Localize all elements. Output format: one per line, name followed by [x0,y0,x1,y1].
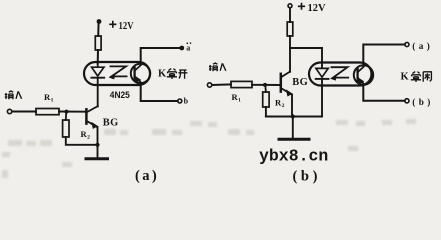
phototransistor collector diagonal (b) [358,67,364,73]
wire R2 to bottom rail (a) [66,137,98,145]
LED cathode wire down to rail (b) [321,80,323,116]
junction node base/R2 (a) [65,110,69,114]
svg-text:1: 1 [51,98,54,104]
junction node base/R2 (b) [263,83,267,87]
svg-text:12V: 12V [119,21,134,32]
emitter wire down to contact (b) terminal (b) [363,85,405,101]
svg-text:(b): (b) [412,97,433,107]
light-arrow Z symbol (a) [111,66,127,76]
bottom rail (b) [266,116,322,118]
svg-text:2: 2 [282,103,285,109]
input wire to R1 (a) [12,111,36,113]
wire R1 to base (a) [59,111,86,113]
input wire to R1 (b) [212,83,231,86]
svg-text:12V: 12V [308,3,326,14]
wire junction down to R2 (a) [65,112,67,120]
wire R2 to bottom rail (b) [265,107,267,117]
optocoupler 4N25 stadium outline (a) [84,62,150,85]
label +12V (a) [109,21,116,28]
svg-text:b: b [184,96,189,105]
junction node emitter/rail (a) [95,143,99,147]
LED anode wire inside (a) [97,64,99,68]
wire resistor to optocoupler (a) [97,50,99,64]
phototransistor emitter diagonal with arrow (a) [135,76,141,82]
labels circuit (a) [5,21,191,184]
phototransistor base bar (b) [356,69,358,81]
wire +12V to resistor (b) [289,8,291,22]
svg-text:a: a [186,44,190,53]
svg-text:K: K [401,71,410,82]
resistor R1 body (a) [36,109,59,115]
collector wire up to contact a (a) [141,48,180,65]
LED triangle (a) [92,67,104,76]
phototransistor base bar (a) [133,68,135,80]
emitter wire down to rail (b) [291,95,293,117]
svg-text:ybx8.cn: ybx8.cn [259,147,328,166]
terminal b open circle (a) [178,99,182,103]
emitter wire down to contact b (a) [141,83,178,101]
input terminal circle (b) [207,83,211,87]
ground stub (a) [97,145,99,158]
resistor R1 body (b) [231,81,252,87]
svg-text:BG: BG [292,77,308,88]
resistor (collector series) body (a) [95,36,101,50]
LED cathode bar (a) [91,77,104,79]
svg-text:4N25: 4N25 [110,90,131,101]
transistor BG emitter diagonal with arrow (a) [86,121,97,127]
svg-text:(a): (a) [135,168,159,184]
+12V supply terminal dot (a) [97,19,102,24]
resistor R2 body (a) [63,120,69,137]
svg-text:1: 1 [238,97,241,103]
resistor (pull-up) body (b) [287,22,293,36]
wire junction down to collector (b) [289,48,291,72]
emitter wire down (a) [97,127,99,145]
transistor BG emitter diagonal with arrow (b) [281,88,292,95]
phototransistor circle (b) [354,65,373,84]
ground bar (a) [86,157,108,160]
terminal (b) open circle (b) [405,99,409,103]
phototransistor collector diagonal (a) [135,65,141,71]
collector wire up to contact (a) terminal (b) [363,45,405,67]
optocoupler stadium outline (b) [309,63,372,86]
transistor BG base bar (a) [85,109,88,123]
faint bleed-through smudges [2,119,416,178]
label +12V (b) [298,3,305,10]
phototransistor circle (a) [131,64,150,83]
light-arrow Z symbol (b) [332,67,349,77]
svg-text:K: K [158,69,167,80]
input terminal circle (a) [7,109,11,113]
svg-text:(b): (b) [293,169,322,185]
LED cathode wire down to transistor collector (a) [97,79,99,107]
junction node emitter/rail (b) [291,114,295,118]
terminal (a) open circle (b) [405,42,409,46]
labels circuit (b) [209,3,434,185]
LED cathode bar (b) [316,78,329,80]
ground stub (b) [292,117,294,139]
+12V terminal open circle (b) [288,4,292,8]
phototransistor emitter diagonal with arrow (b) [358,78,364,84]
LED triangle (b) [316,68,328,77]
terminal a dot (a) [179,46,184,51]
wire +12V to resistor (a) [97,22,99,36]
label 输入 input (b) hand-drawn glyphs [209,63,226,71]
svg-text:BG: BG [103,117,119,128]
svg-text:2: 2 [87,134,90,140]
transistor BG base bar (b) [280,74,283,92]
resistor R2 body (b) [263,92,269,107]
label 输入 input (a) hand-drawn glyphs [5,91,22,99]
wire R1 to base (b) [252,84,281,86]
transistor BG collector diagonal (b) [281,72,290,78]
transistor BG collector diagonal (a) [86,106,97,112]
ground bar (b) [279,138,309,141]
wire junction to LED branch (b) [290,48,322,68]
wire resistor to junction (b) [289,36,291,48]
wire junction down to R2 (b) [264,85,266,92]
svg-text:(a): (a) [412,41,433,51]
